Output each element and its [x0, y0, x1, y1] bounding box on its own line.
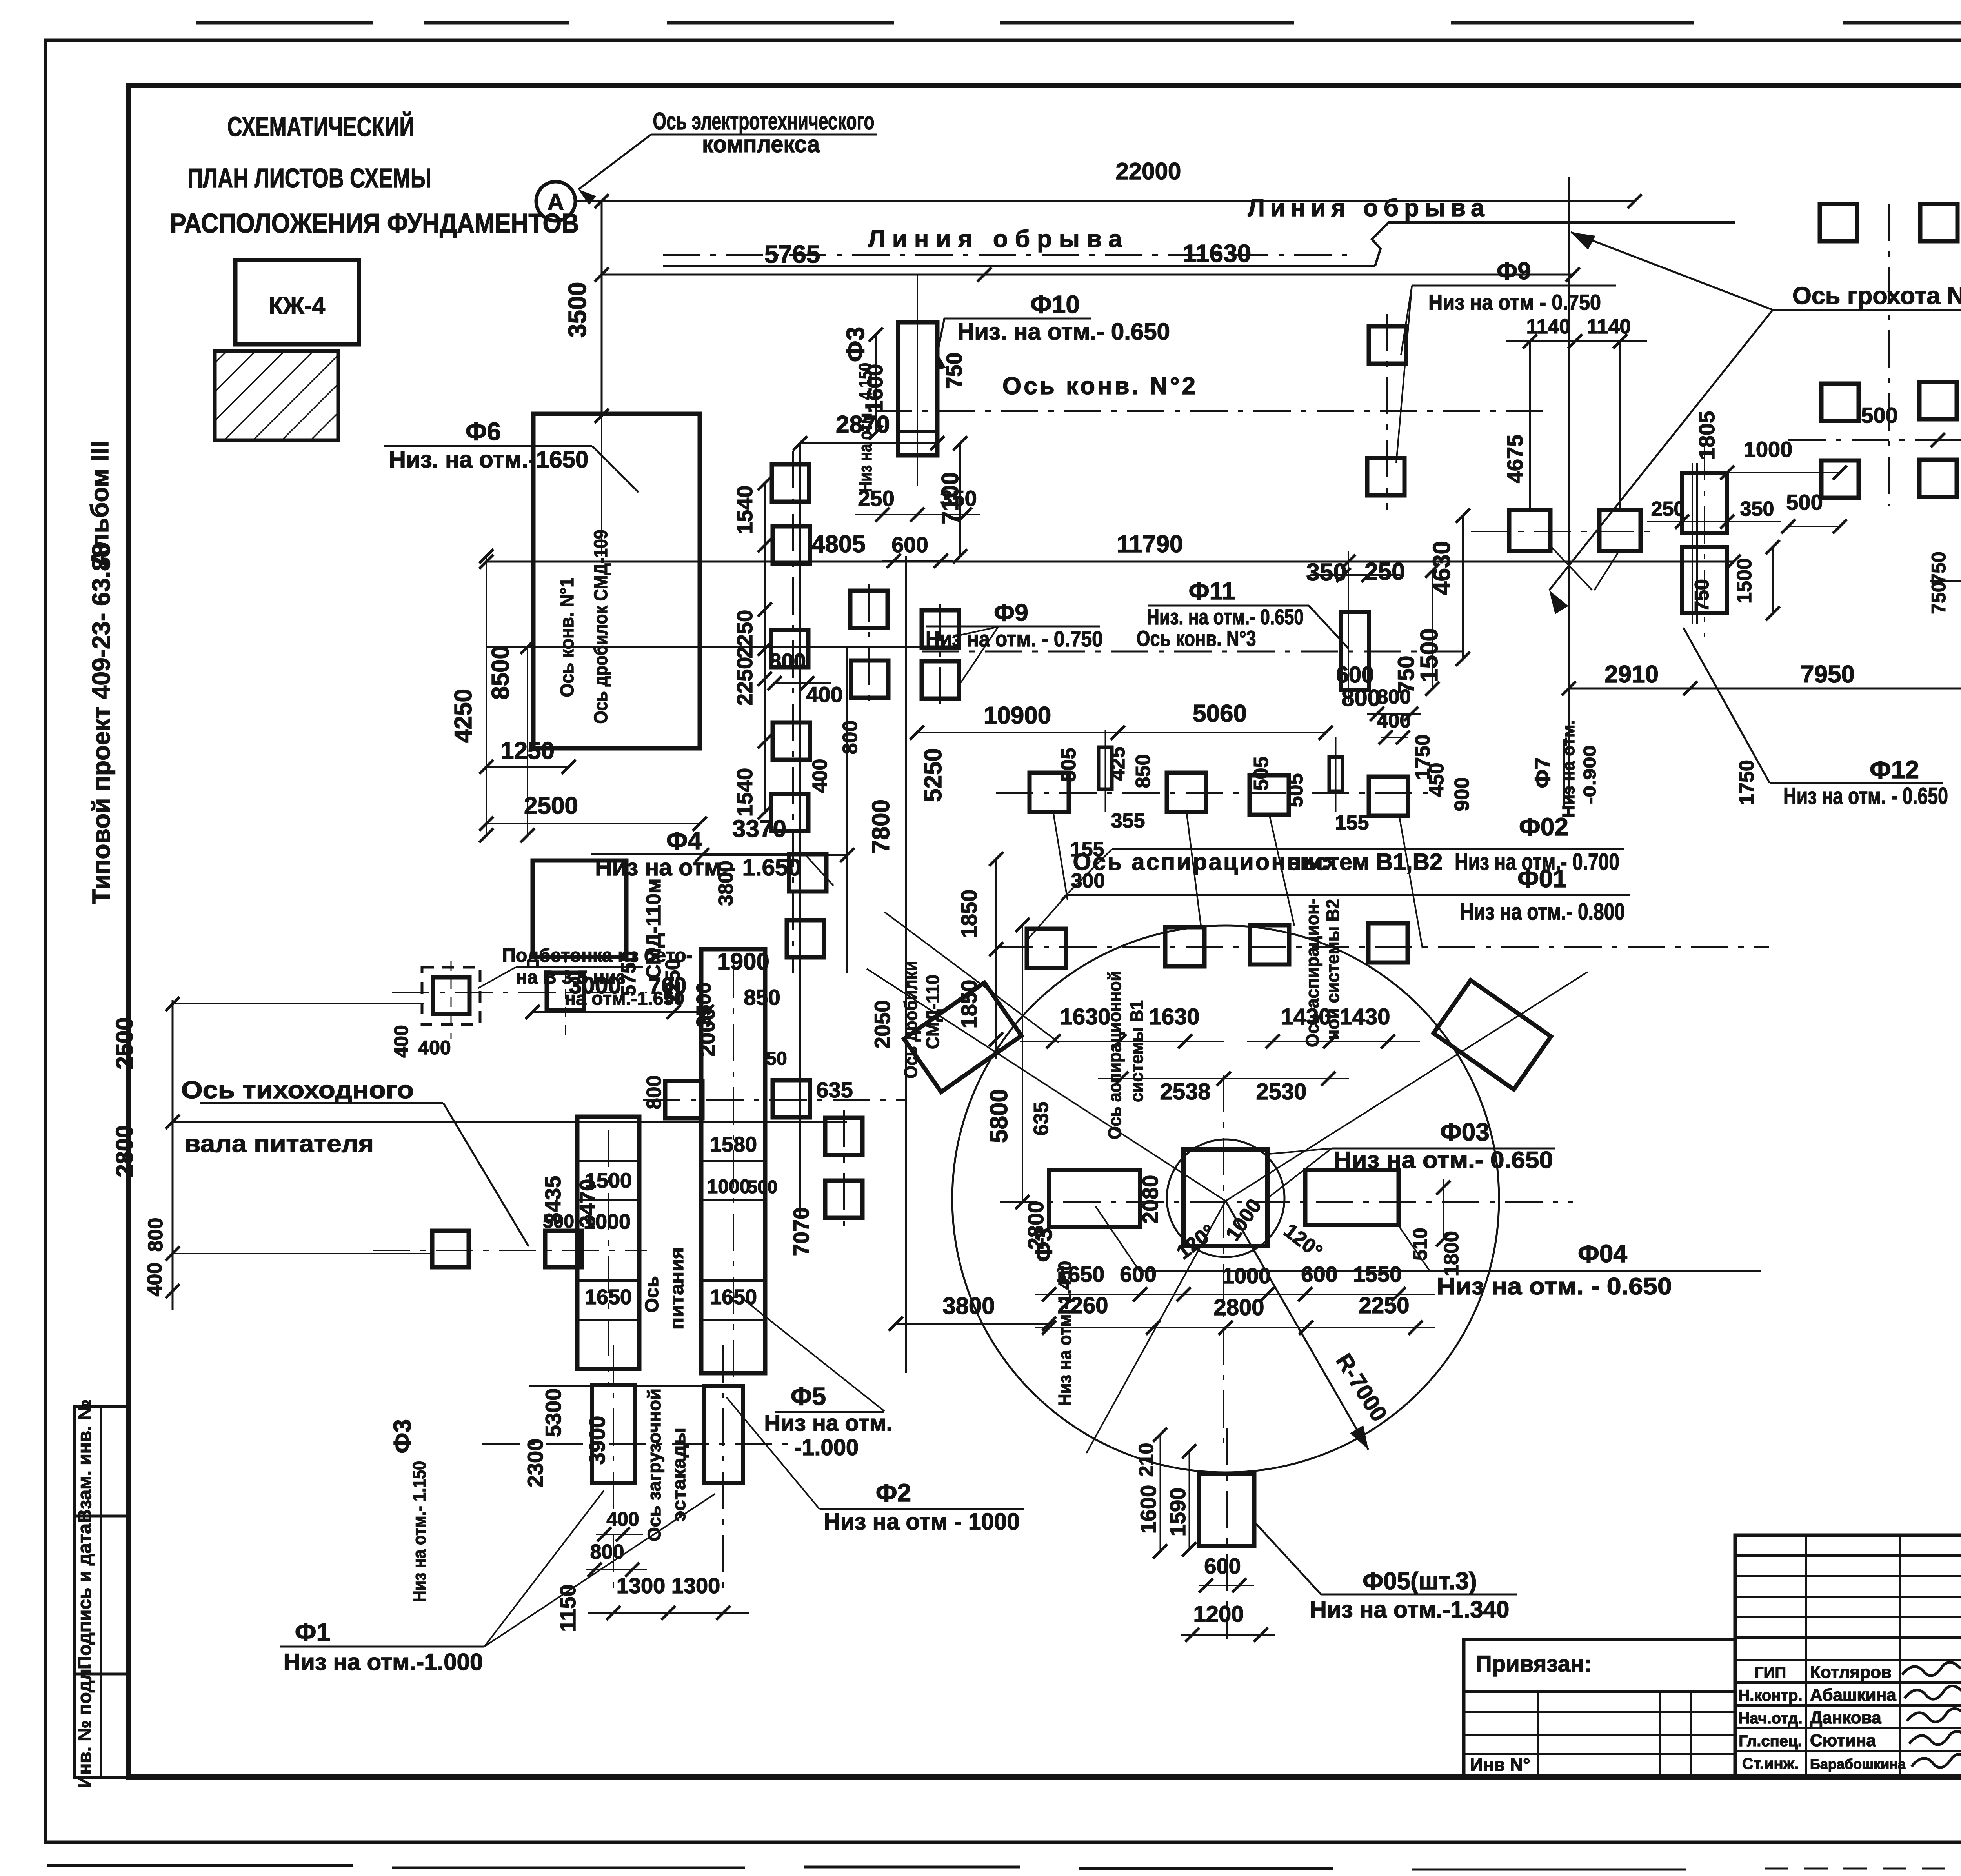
svg-text:Ф05(шт.3): Ф05(шт.3)	[1363, 1568, 1477, 1595]
svg-text:1430: 1430	[1339, 1004, 1390, 1030]
svg-text:эстакады: эстакады	[669, 1428, 689, 1522]
svg-text:Ось аспирационной: Ось аспирационной	[1104, 971, 1125, 1139]
svg-text:2800: 2800	[111, 1125, 138, 1177]
svg-text:7100: 7100	[937, 472, 963, 524]
svg-text:1630: 1630	[1149, 1004, 1199, 1030]
svg-text:Низ. на отм.-1650: Низ. на отм.-1650	[389, 446, 589, 473]
svg-text:600: 600	[1336, 662, 1374, 688]
svg-text:Ось тихоходного: Ось тихоходного	[181, 1077, 414, 1104]
svg-text:Ось загрузочной: Ось загрузочной	[644, 1388, 664, 1541]
svg-text:400: 400	[418, 1037, 451, 1059]
svg-text:1540: 1540	[732, 768, 757, 817]
svg-text:350: 350	[1740, 498, 1774, 520]
svg-text:Низ на отм.- 1.150: Низ на отм.- 1.150	[409, 1461, 429, 1602]
svg-text:-1.000: -1.000	[794, 1435, 859, 1460]
svg-text:600: 600	[1120, 1262, 1156, 1286]
svg-text:Сютина: Сютина	[1810, 1731, 1876, 1750]
svg-text:Ф1: Ф1	[295, 1618, 330, 1646]
svg-text:Ф3: Ф3	[841, 327, 870, 362]
svg-text:Ф11: Ф11	[1189, 578, 1235, 605]
svg-text:400: 400	[606, 1508, 639, 1530]
svg-text:Ось конв. N°3: Ось конв. N°3	[1137, 626, 1256, 651]
svg-text:Ф04: Ф04	[1578, 1239, 1627, 1268]
svg-text:Низ. на отм.- 0.650: Низ. на отм.- 0.650	[1147, 604, 1304, 629]
svg-text:Ф9: Ф9	[994, 599, 1028, 626]
svg-text:1500: 1500	[1416, 628, 1443, 682]
svg-text:3500: 3500	[693, 982, 715, 1028]
svg-text:Низ на отм.: Низ на отм.	[764, 1410, 892, 1436]
svg-text:1805: 1805	[1694, 411, 1719, 460]
svg-text:635: 635	[1030, 1102, 1053, 1136]
svg-text:Низ на отм.- 1.650: Низ на отм.- 1.650	[595, 854, 801, 881]
svg-text:Ф01: Ф01	[1517, 864, 1567, 893]
svg-text:11630: 11630	[1183, 239, 1251, 267]
svg-text:Подпись и дата: Подпись и дата	[75, 1523, 95, 1669]
svg-text:ГИП: ГИП	[1755, 1664, 1786, 1681]
svg-text:750: 750	[1928, 551, 1950, 584]
svg-text:3500: 3500	[563, 282, 591, 338]
svg-text:5060: 5060	[1193, 700, 1247, 727]
svg-text:400: 400	[809, 759, 831, 793]
svg-text:850: 850	[744, 985, 780, 1010]
svg-text:350: 350	[1306, 559, 1346, 586]
svg-text:120°: 120°	[1172, 1220, 1219, 1264]
svg-text:800: 800	[643, 1075, 666, 1110]
svg-text:900: 900	[1451, 777, 1473, 812]
svg-text:400: 400	[806, 682, 842, 707]
svg-text:510: 510	[1409, 1228, 1431, 1260]
svg-text:500: 500	[1861, 403, 1897, 428]
svg-text:Ось дробилки: Ось дробилки	[900, 961, 921, 1079]
svg-text:Котляров: Котляров	[1810, 1663, 1892, 1682]
svg-text:600: 600	[891, 532, 928, 557]
svg-text:2250: 2250	[732, 610, 757, 659]
svg-text:СМД-110м: СМД-110м	[642, 879, 665, 979]
svg-text:Гл.спец.: Гл.спец.	[1739, 1732, 1802, 1750]
svg-text:Ф12: Ф12	[1870, 755, 1919, 784]
svg-text:Ф4: Ф4	[666, 826, 702, 855]
svg-text:Низ на отм.: Низ на отм.	[1559, 720, 1578, 818]
svg-text:СХЕМАТИЧЕСКИЙ: СХЕМАТИЧЕСКИЙ	[227, 111, 415, 142]
svg-text:Нач.отд.: Нач.отд.	[1738, 1710, 1802, 1727]
svg-text:7070: 7070	[789, 1207, 813, 1256]
svg-text:1900: 1900	[717, 948, 769, 975]
svg-text:Ось: Ось	[642, 1276, 662, 1313]
svg-text:2980: 2980	[1957, 497, 1961, 546]
svg-text:1300: 1300	[617, 1573, 666, 1598]
svg-text:Низ на отм - 0.750: Низ на отм - 0.750	[1428, 290, 1601, 315]
svg-text:питания: питания	[667, 1247, 688, 1330]
svg-text:2050: 2050	[870, 1000, 895, 1049]
svg-text:Низ. на отм.- 0.650: Низ. на отм.- 0.650	[957, 318, 1170, 345]
svg-text:1300: 1300	[671, 1573, 720, 1598]
svg-text:2500: 2500	[111, 1017, 138, 1069]
svg-text:Ф2: Ф2	[876, 1479, 911, 1507]
svg-text:1500: 1500	[1733, 558, 1756, 604]
svg-text:Низ на отм. - 0.650: Низ на отм. - 0.650	[1437, 1273, 1672, 1299]
svg-text:Ф03: Ф03	[1440, 1118, 1490, 1146]
svg-text:400: 400	[144, 1263, 166, 1297]
svg-text:4250: 4250	[450, 689, 477, 743]
svg-text:Ось конв. N°2: Ось конв. N°2	[1002, 373, 1198, 400]
svg-text:11790: 11790	[1117, 531, 1183, 558]
svg-text:1590: 1590	[1165, 1488, 1190, 1537]
svg-text:5800: 5800	[986, 1089, 1013, 1143]
svg-text:Низ на отм.- 0.800: Низ на отм.- 0.800	[1460, 899, 1625, 925]
svg-text:600: 600	[1204, 1554, 1241, 1578]
svg-text:2870: 2870	[836, 411, 890, 438]
svg-text:Инв. № подл.: Инв. № подл.	[75, 1663, 95, 1789]
svg-text:Ф10: Ф10	[1030, 290, 1080, 318]
svg-text:10900: 10900	[984, 702, 1051, 729]
svg-text:систем В1,В2: систем В1,В2	[1287, 849, 1443, 875]
svg-text:500: 500	[543, 1211, 574, 1232]
svg-text:2080: 2080	[1138, 1175, 1162, 1224]
svg-text:РАСПОЛОЖЕНИЯ ФУНДАМЕНТОВ: РАСПОЛОЖЕНИЯ ФУНДАМЕНТОВ	[170, 208, 579, 238]
svg-text:2250: 2250	[1359, 1293, 1409, 1318]
svg-text:1500: 1500	[585, 1169, 632, 1192]
svg-text:4805: 4805	[811, 531, 866, 558]
svg-text:850: 850	[1132, 754, 1155, 788]
svg-text:2500: 2500	[524, 792, 578, 819]
svg-text:750: 750	[1691, 579, 1713, 611]
svg-text:Абашкина: Абашкина	[1810, 1685, 1896, 1705]
svg-text:Ф9: Ф9	[1497, 258, 1531, 285]
svg-text:2250: 2250	[732, 657, 757, 706]
svg-text:210: 210	[1135, 1443, 1158, 1477]
svg-text:5300: 5300	[541, 1388, 566, 1437]
svg-text:Привязан:: Привязан:	[1475, 1651, 1592, 1677]
svg-text:Низ на отм.-1.340: Низ на отм.-1.340	[1310, 1596, 1510, 1623]
svg-text:1750: 1750	[1412, 734, 1434, 780]
svg-text:КЖ-4: КЖ-4	[269, 293, 326, 319]
svg-text:А: А	[548, 189, 564, 215]
svg-text:системы В1: системы В1	[1126, 1000, 1147, 1102]
svg-text:Ось грохота N°1: Ось грохота N°1	[1792, 282, 1961, 309]
svg-text:-0.900: -0.900	[1580, 745, 1599, 804]
svg-text:Ф3: Ф3	[1030, 1228, 1057, 1262]
svg-text:2538: 2538	[1160, 1079, 1210, 1104]
svg-text:Низ на отм.-1.450: Низ на отм.-1.450	[1055, 1261, 1075, 1406]
svg-text:Ф5: Ф5	[791, 1382, 826, 1410]
svg-text:Низ на отм.-1.000: Низ на отм.-1.000	[284, 1649, 483, 1675]
svg-text:1750: 1750	[1735, 760, 1758, 805]
svg-text:250: 250	[1651, 498, 1685, 520]
svg-text:Ф3: Ф3	[389, 1419, 416, 1453]
svg-text:400: 400	[390, 1025, 412, 1057]
svg-text:ПЛАН ЛИСТОВ СХЕМЫ: ПЛАН ЛИСТОВ СХЕМЫ	[187, 163, 431, 193]
svg-text:Низ на отм - 1000: Низ на отм - 1000	[824, 1508, 1020, 1535]
svg-text:1430: 1430	[1281, 1004, 1331, 1030]
svg-text:1630: 1630	[1060, 1004, 1110, 1030]
svg-text:Ф02: Ф02	[1519, 813, 1568, 841]
svg-text:Низ на отм. - 0.650: Низ на отм. - 0.650	[1783, 783, 1948, 809]
svg-text:3900: 3900	[585, 1416, 609, 1465]
svg-text:50: 50	[766, 1048, 787, 1069]
svg-text:Типовой проект 409-23- 63.88: Типовой проект 409-23- 63.88	[87, 543, 115, 904]
svg-text:2300: 2300	[523, 1439, 548, 1488]
svg-text:Н.контр.: Н.контр.	[1738, 1687, 1802, 1704]
svg-text:R-7000: R-7000	[1331, 1349, 1392, 1426]
svg-text:425: 425	[1106, 747, 1129, 781]
svg-text:1000: 1000	[584, 1210, 631, 1234]
svg-text:800: 800	[1341, 685, 1381, 711]
svg-text:355: 355	[1111, 810, 1145, 832]
svg-text:505: 505	[1284, 773, 1307, 808]
svg-text:7800: 7800	[868, 799, 895, 853]
svg-text:1000: 1000	[1744, 437, 1793, 462]
svg-text:750: 750	[942, 352, 966, 389]
svg-text:4675: 4675	[1503, 435, 1527, 484]
svg-text:505: 505	[1057, 748, 1080, 782]
svg-text:1140: 1140	[1587, 315, 1631, 338]
svg-text:Взам. инв. №: Взам. инв. №	[75, 1399, 95, 1523]
svg-text:1650: 1650	[585, 1285, 632, 1309]
svg-text:Барабошкина: Барабошкина	[1810, 1756, 1906, 1772]
svg-text:600: 600	[1301, 1262, 1337, 1286]
svg-text:Линия обрыва: Линия обрыва	[868, 226, 1129, 253]
svg-text:Ось конв. N°1: Ось конв. N°1	[557, 578, 578, 697]
svg-text:3800: 3800	[942, 1293, 995, 1319]
svg-text:500: 500	[748, 1177, 778, 1197]
svg-text:1540: 1540	[732, 486, 757, 535]
svg-text:155: 155	[1335, 812, 1369, 834]
svg-text:750: 750	[1928, 581, 1950, 614]
svg-text:500: 500	[1786, 490, 1823, 515]
svg-text:1600: 1600	[1136, 1485, 1161, 1534]
svg-text:Низ на отм. - 0.750: Низ на отм. - 0.750	[926, 626, 1103, 651]
svg-text:Линия обрыва: Линия обрыва	[1248, 195, 1490, 222]
svg-text:2910: 2910	[1604, 661, 1659, 688]
svg-text:1850: 1850	[957, 890, 981, 939]
svg-text:Ф6: Ф6	[466, 417, 501, 446]
svg-text:вала питателя: вала питателя	[184, 1130, 374, 1157]
svg-text:8500: 8500	[487, 646, 514, 700]
svg-text:800: 800	[590, 1541, 624, 1563]
svg-text:Ось дробилок СМД-109: Ось дробилок СМД-109	[591, 530, 611, 724]
svg-text:505: 505	[1250, 757, 1273, 791]
svg-text:Ф7: Ф7	[1530, 757, 1555, 788]
svg-text:635: 635	[816, 1077, 853, 1102]
svg-text:1250: 1250	[500, 737, 555, 764]
svg-text:800: 800	[1377, 686, 1411, 708]
svg-text:2800: 2800	[1213, 1295, 1264, 1320]
svg-text:1550: 1550	[1353, 1262, 1402, 1286]
svg-text:Данкова: Данкова	[1810, 1708, 1881, 1727]
svg-text:1000: 1000	[707, 1175, 750, 1197]
svg-text:800: 800	[769, 649, 806, 673]
svg-text:4630: 4630	[1428, 541, 1455, 595]
svg-text:800: 800	[144, 1218, 167, 1252]
svg-text:3000: 3000	[569, 972, 621, 999]
svg-text:СМД-110: СМД-110	[922, 975, 943, 1049]
svg-text:1140: 1140	[1526, 315, 1571, 338]
svg-text:800: 800	[839, 721, 862, 755]
svg-text:Инв N°: Инв N°	[1470, 1754, 1530, 1775]
svg-text:Ст.инж.: Ст.инж.	[1742, 1755, 1799, 1772]
svg-text:7950: 7950	[1801, 661, 1855, 688]
svg-text:2530: 2530	[1256, 1079, 1306, 1104]
svg-text:1200: 1200	[1193, 1601, 1244, 1627]
svg-text:5250: 5250	[920, 748, 947, 802]
svg-text:22000: 22000	[1116, 158, 1181, 184]
svg-text:1580: 1580	[710, 1133, 757, 1156]
